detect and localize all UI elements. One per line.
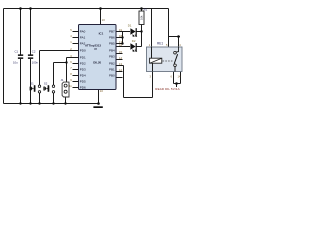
svg-text:PB5: PB5 [109, 42, 115, 46]
svg-text:10u: 10u [13, 61, 18, 65]
svg-text:/V: /V [94, 47, 97, 51]
svg-text:PD0: PD0 [80, 49, 86, 53]
svg-text:19: 19 [119, 28, 122, 32]
svg-text:RE1: RE1 [157, 41, 163, 45]
svg-text:6: 6 [171, 75, 173, 79]
svg-text:10k: 10k [139, 15, 143, 20]
svg-text:1: 1 [70, 40, 72, 44]
svg-text:8: 8 [70, 72, 72, 76]
svg-text:4: 4 [179, 43, 181, 47]
svg-text:DIL20: DIL20 [93, 60, 101, 64]
svg-text:PA1: PA1 [80, 36, 86, 40]
svg-text:20: 20 [102, 18, 106, 22]
svg-text:D1: D1 [128, 24, 132, 28]
svg-text:4: 4 [70, 34, 72, 38]
svg-text:S2: S2 [44, 81, 48, 85]
svg-text:PB6: PB6 [109, 36, 115, 40]
svg-text:PB0: PB0 [109, 73, 115, 77]
svg-text:R1: R1 [144, 7, 148, 11]
svg-text:IC1: IC1 [99, 32, 104, 36]
svg-text:PB7: PB7 [109, 30, 115, 34]
svg-text:10: 10 [100, 89, 104, 93]
svg-text:PB2: PB2 [109, 61, 115, 65]
svg-text:ATTiny2313: ATTiny2313 [85, 43, 101, 47]
svg-text:PD6: PD6 [80, 86, 86, 90]
svg-text:D2: D2 [132, 39, 136, 43]
svg-text:6: 6 [70, 60, 72, 64]
svg-text:15: 15 [119, 50, 122, 54]
svg-text:13: 13 [119, 62, 122, 66]
svg-text:100n: 100n [32, 61, 39, 65]
svg-text:PB1: PB1 [109, 67, 115, 71]
svg-text:5: 5 [166, 43, 168, 47]
svg-text:PB3: PB3 [109, 54, 115, 58]
svg-text:5: 5 [70, 28, 72, 32]
svg-text:READ DIL 5V/1A: READ DIL 5V/1A [155, 87, 179, 91]
svg-text:S1: S1 [30, 81, 34, 85]
svg-text:C2: C2 [32, 50, 36, 54]
svg-text:PD2: PD2 [80, 62, 86, 66]
svg-text:PD5: PD5 [80, 80, 86, 84]
svg-text:PD4: PD4 [80, 74, 86, 78]
svg-text:C1: C1 [15, 50, 19, 54]
svg-text:14: 14 [119, 56, 122, 60]
svg-text:12: 12 [119, 68, 122, 72]
svg-text:J1: J1 [61, 78, 64, 82]
svg-text:3: 3 [150, 75, 152, 79]
svg-text:PD3: PD3 [80, 68, 86, 72]
svg-text:9: 9 [70, 78, 72, 82]
svg-text:11: 11 [69, 84, 72, 88]
svg-text:1: 1 [149, 43, 151, 47]
svg-text:PB4: PB4 [109, 48, 115, 52]
svg-text:7: 7 [70, 66, 72, 70]
svg-text:PA0: PA0 [80, 30, 86, 34]
svg-text:PD1: PD1 [80, 56, 86, 60]
svg-text:18: 18 [119, 34, 122, 38]
svg-text:16: 16 [119, 43, 122, 47]
